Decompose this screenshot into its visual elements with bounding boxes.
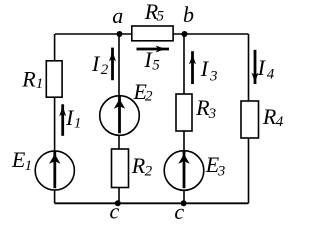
svg-text:2: 2 bbox=[145, 163, 153, 179]
svg-text:R: R bbox=[262, 104, 277, 129]
svg-text:a: a bbox=[112, 3, 123, 28]
svg-text:5: 5 bbox=[157, 9, 165, 25]
svg-text:1: 1 bbox=[74, 116, 82, 132]
svg-text:c: c bbox=[110, 199, 120, 224]
svg-text:3: 3 bbox=[208, 106, 217, 122]
svg-text:1: 1 bbox=[25, 158, 32, 174]
svg-text:R: R bbox=[21, 66, 36, 91]
svg-text:3: 3 bbox=[217, 163, 226, 179]
svg-text:1: 1 bbox=[36, 76, 44, 92]
svg-text:2: 2 bbox=[145, 89, 153, 105]
svg-text:c: c bbox=[174, 199, 184, 224]
svg-text:b: b bbox=[183, 2, 194, 27]
svg-text:2: 2 bbox=[101, 62, 109, 78]
svg-text:3: 3 bbox=[209, 68, 218, 84]
svg-text:4: 4 bbox=[267, 67, 275, 83]
svg-text:5: 5 bbox=[152, 57, 160, 73]
svg-text:4: 4 bbox=[276, 114, 284, 130]
svg-text:R: R bbox=[131, 153, 146, 178]
